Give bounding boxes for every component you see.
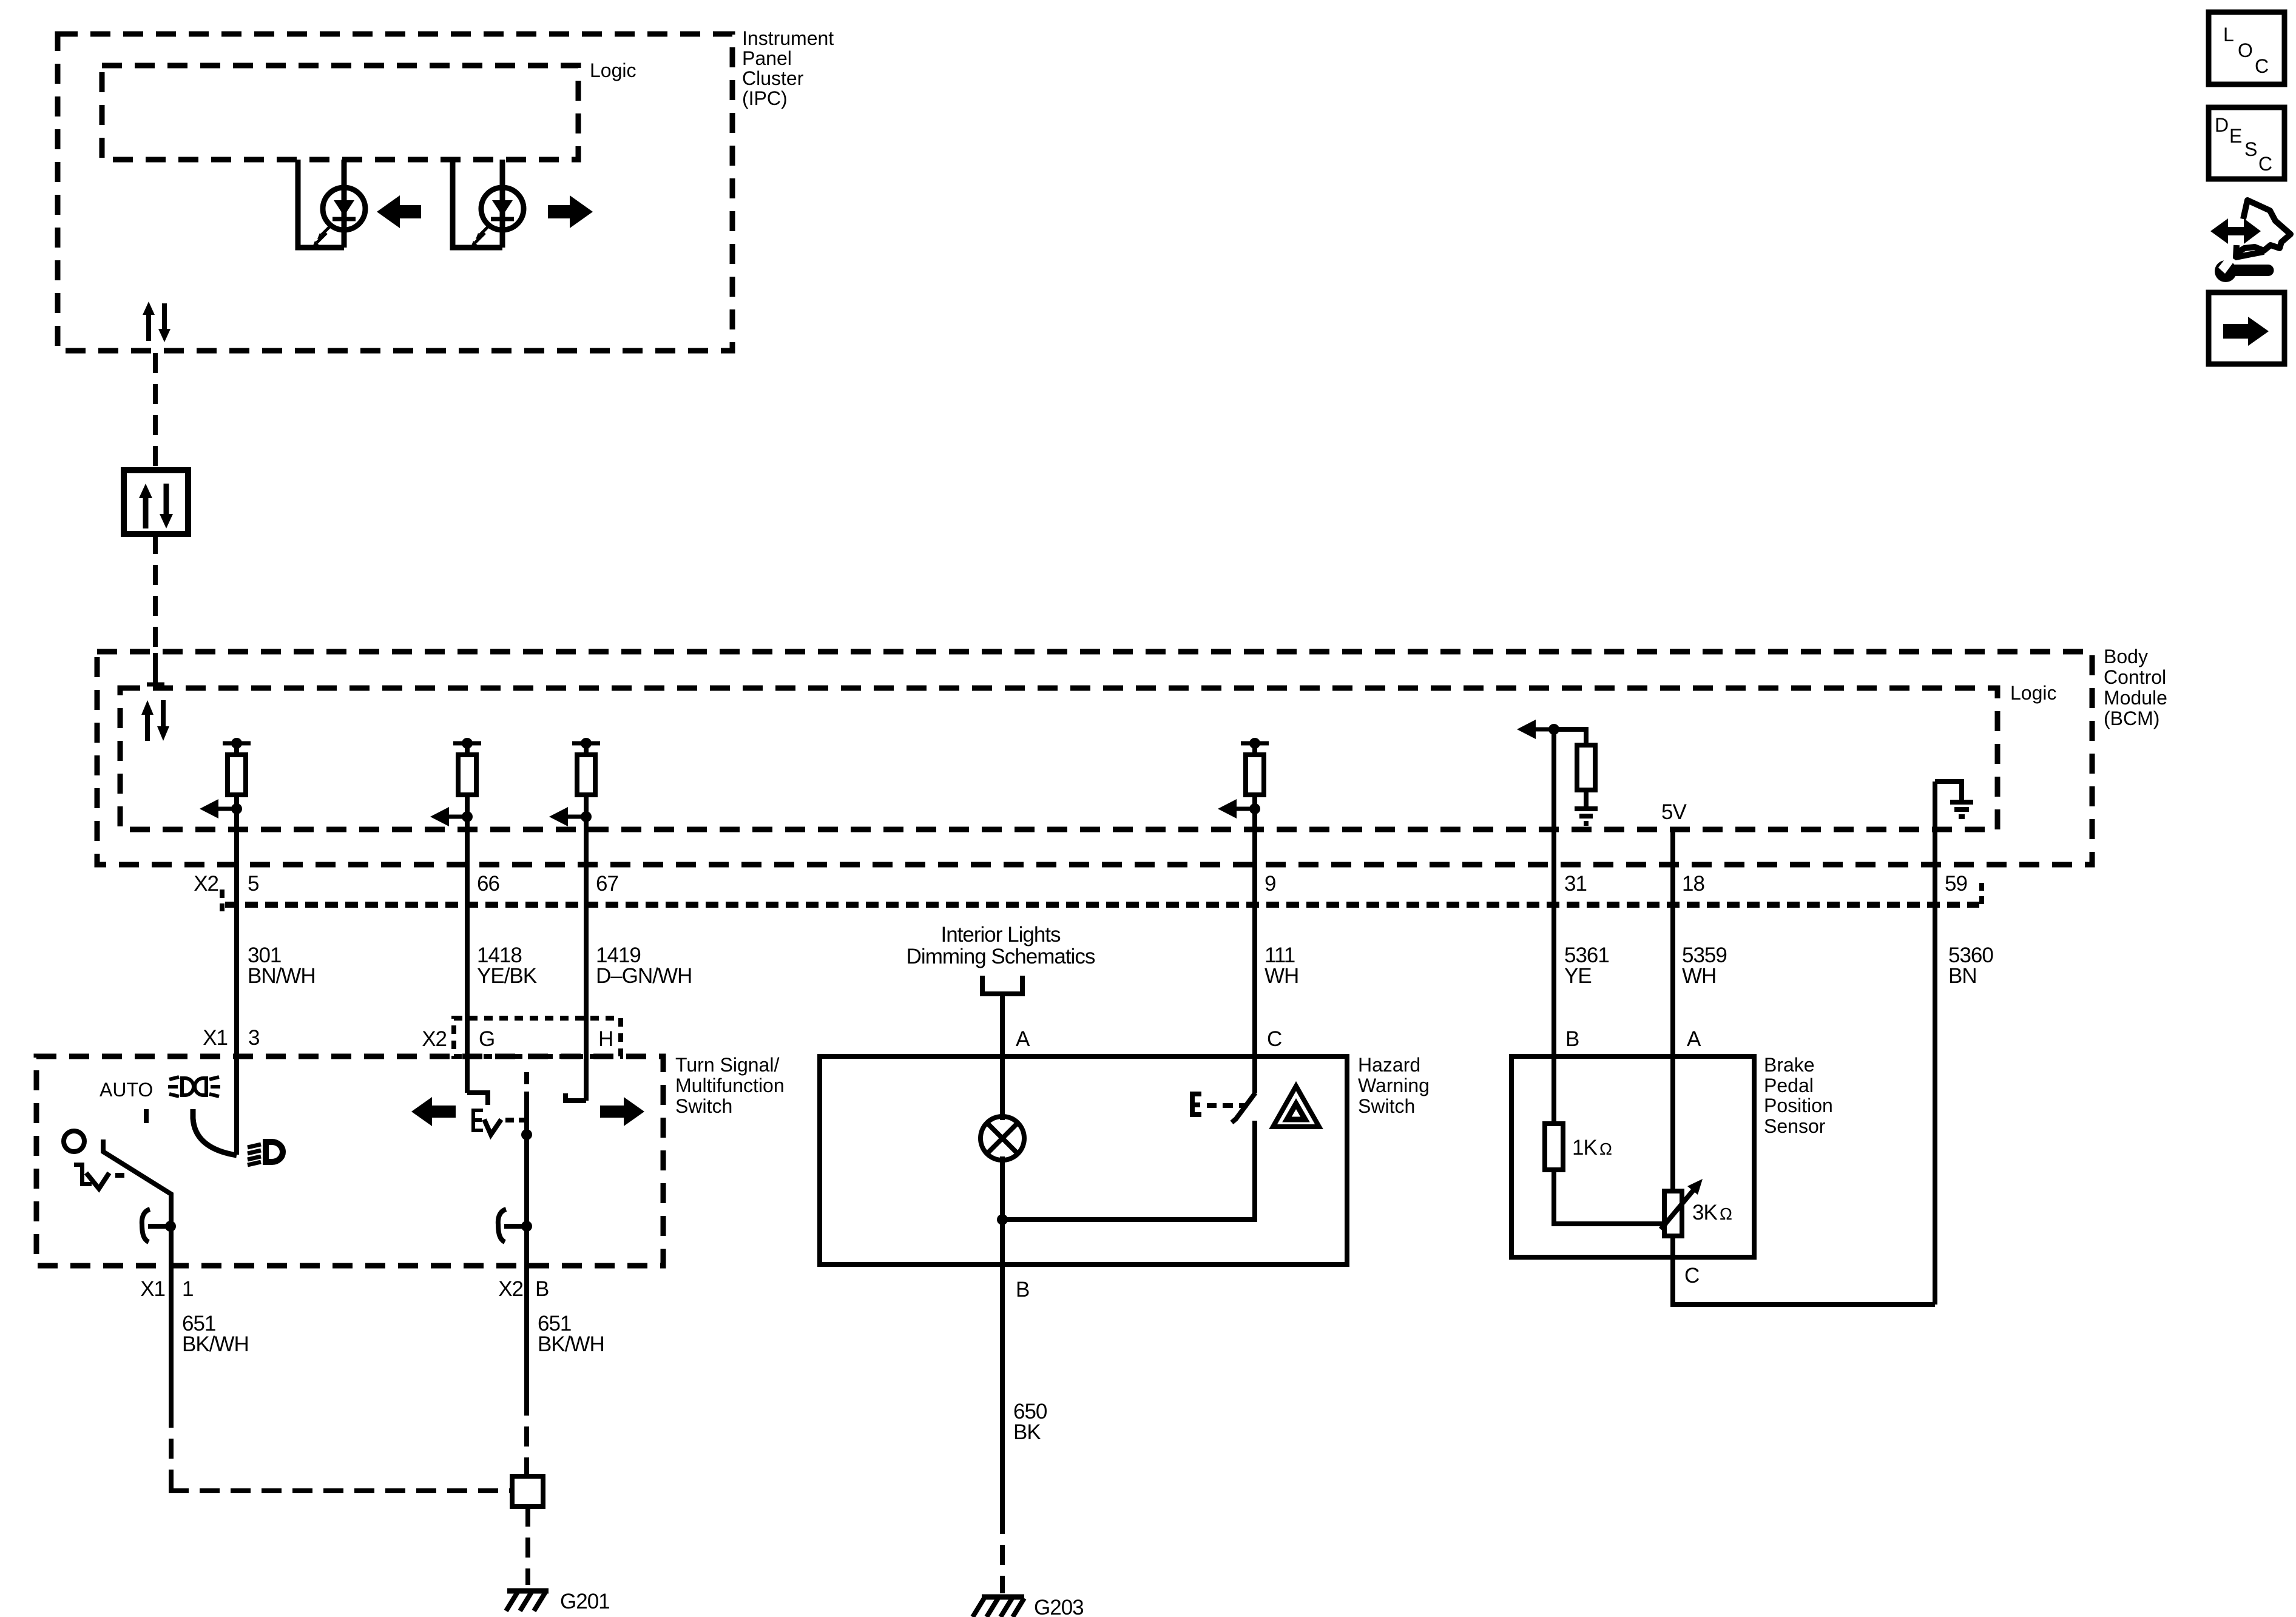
BCM Logic dashed box xyxy=(120,688,1997,829)
wire: callout stem to hazard switch pin A xyxy=(1000,994,1005,1056)
wire: left LED vertical xyxy=(342,160,347,248)
svg-text:C: C xyxy=(2258,153,2272,175)
auto headlamp icon xyxy=(182,1078,194,1095)
LED right turn indicator xyxy=(481,187,524,230)
svg-text:5V: 5V xyxy=(1661,800,1687,824)
LED left turn indicator xyxy=(323,187,365,230)
svg-text:B: B xyxy=(535,1277,549,1301)
svg-text:Control: Control xyxy=(2104,666,2166,688)
wire: circuit 111 BCM pin 9 down xyxy=(1252,809,1257,1092)
svg-text:Brake: Brake xyxy=(1764,1054,1815,1076)
node pin 66 with output arrow xyxy=(462,811,473,822)
wire: pin G hook xyxy=(467,1093,488,1105)
svg-text:Instrument: Instrument xyxy=(742,27,834,49)
svg-text:Interior Lights: Interior Lights xyxy=(940,923,1061,947)
adjust/hand-wrench icon: hand outline xyxy=(2238,200,2291,252)
right arrow legend box xyxy=(2209,292,2284,364)
svg-text:3: 3 xyxy=(248,1026,259,1050)
svg-text:Body: Body xyxy=(2104,646,2148,667)
connector X2 dashed tick xyxy=(220,890,225,911)
resistor pin 66 pull-up xyxy=(453,741,481,746)
svg-text:X2: X2 xyxy=(422,1027,447,1051)
contact terminal X2-B xyxy=(498,1209,506,1242)
svg-text:BK/WH: BK/WH xyxy=(182,1332,249,1356)
svg-text:YE/BK: YE/BK xyxy=(477,964,537,988)
svg-text:X2: X2 xyxy=(498,1277,523,1301)
svg-text:Pedal: Pedal xyxy=(1764,1075,1814,1096)
LED right light rays xyxy=(480,225,490,235)
turn signal lever dashed link xyxy=(524,1072,529,1099)
node turn signal common xyxy=(521,1129,532,1140)
gateway box up-down arrows xyxy=(143,498,149,528)
svg-text:Sensor: Sensor xyxy=(1764,1115,1826,1137)
svg-text:G203: G203 xyxy=(1034,1596,1084,1617)
wire: pin H hook xyxy=(566,1093,586,1101)
wiper arrow 3K xyxy=(1661,1189,1695,1229)
svg-text:Ω: Ω xyxy=(1720,1204,1732,1223)
wire: turn signal common xyxy=(524,1099,529,1266)
svg-text:(IPC): (IPC) xyxy=(742,87,788,109)
svg-text:G: G xyxy=(479,1027,495,1051)
wire: pin C drop xyxy=(1252,1056,1257,1093)
svg-text:A: A xyxy=(1687,1027,1701,1051)
resistor pin 67 pull-up xyxy=(572,741,600,746)
node pin 9 with output arrow xyxy=(1249,803,1260,814)
svg-text:WH: WH xyxy=(1682,964,1716,988)
wire: dashed to ground G201 xyxy=(525,1507,530,1585)
right turn direction arrow xyxy=(600,1097,644,1126)
svg-text:B: B xyxy=(1016,1278,1029,1301)
svg-text:X1: X1 xyxy=(140,1277,165,1301)
IPC Logic dashed box xyxy=(102,66,578,160)
svg-text:Dimming Schematics: Dimming Schematics xyxy=(907,945,1095,968)
svg-text:9: 9 xyxy=(1264,872,1275,896)
wire: left turn LED loop xyxy=(298,160,344,248)
callout bracket xyxy=(982,976,1022,994)
svg-text:A: A xyxy=(1016,1027,1030,1051)
svg-text:H: H xyxy=(598,1027,613,1051)
node pin 5 with output arrow xyxy=(231,803,242,814)
IPC serial data up-down arrows xyxy=(146,312,151,341)
hazard switch blade xyxy=(1232,1093,1255,1122)
DESC legend box xyxy=(2209,107,2284,179)
svg-text:C: C xyxy=(1267,1027,1281,1051)
node pin 31 input arrow xyxy=(1548,724,1559,735)
node pin 67 with output arrow xyxy=(581,811,592,822)
wire: circuit 650 pin B down xyxy=(1000,1264,1005,1514)
wiper arc to circuit 301 xyxy=(193,1109,237,1155)
svg-text:1K: 1K xyxy=(1572,1136,1597,1160)
svg-text:S: S xyxy=(2244,138,2257,160)
svg-text:X1: X1 xyxy=(203,1026,228,1050)
svg-text:Module: Module xyxy=(2104,687,2167,709)
headlamp switch pivot circle xyxy=(64,1131,84,1152)
wire: circuit 301 BCM pin 5 down xyxy=(234,809,239,1155)
dashed detent tick below AUTO xyxy=(144,1109,149,1123)
svg-text:67: 67 xyxy=(596,872,618,896)
wire: serial data stub inside BCM xyxy=(153,653,158,684)
wire: circuit 1418 BCM pin 66 down xyxy=(465,817,470,1093)
Instrument Panel Cluster (IPC) dashed box xyxy=(58,34,732,351)
wire: dashed to ground G203 xyxy=(1000,1514,1005,1593)
left turn direction arrow xyxy=(411,1097,456,1126)
Brake Pedal Position Sensor box xyxy=(1511,1056,1754,1257)
ground internal BCM pin 31 xyxy=(1575,806,1598,811)
hazard switch detent symbol xyxy=(1190,1092,1201,1117)
resistor pin 9 pull-up xyxy=(1241,741,1269,746)
wire: circuit 651 from X2-B xyxy=(524,1266,529,1396)
svg-text:Multifunction: Multifunction xyxy=(675,1075,785,1096)
svg-text:Cluster: Cluster xyxy=(742,67,804,89)
svg-text:Hazard: Hazard xyxy=(1358,1054,1420,1076)
svg-text:YE: YE xyxy=(1564,964,1592,988)
svg-text:Switch: Switch xyxy=(1358,1095,1415,1117)
svg-text:3K: 3K xyxy=(1692,1201,1717,1224)
svg-text:D: D xyxy=(2215,114,2229,136)
svg-text:BK/WH: BK/WH xyxy=(538,1332,604,1356)
svg-text:31: 31 xyxy=(1564,872,1587,896)
svg-text:Logic: Logic xyxy=(2010,682,2057,704)
wire: pin A to lamp xyxy=(1000,1056,1005,1120)
wire: dashed serial data IPC to gateway box xyxy=(153,353,158,470)
svg-text:Position: Position xyxy=(1764,1095,1833,1116)
resistor 1K xyxy=(1545,1124,1563,1170)
svg-text:L: L xyxy=(2223,24,2234,46)
contact terminal X1-1 xyxy=(142,1209,150,1242)
svg-text:B: B xyxy=(1565,1027,1579,1051)
svg-text:BN/WH: BN/WH xyxy=(248,964,316,988)
svg-text:Panel: Panel xyxy=(742,47,792,69)
LOC legend box xyxy=(2209,12,2284,84)
LED left light rays xyxy=(322,225,331,235)
wire: 1K bottom to wiper xyxy=(1554,1170,1667,1224)
wire: circuit 5361 BCM pin 31 down xyxy=(1551,729,1556,1124)
low beam headlamp icon xyxy=(266,1142,283,1162)
splice S201 box xyxy=(512,1476,543,1507)
ground G201 xyxy=(507,1588,549,1594)
svg-text:Switch: Switch xyxy=(675,1095,732,1117)
headlamp switch lever xyxy=(103,1139,171,1266)
svg-text:WH: WH xyxy=(1264,964,1298,988)
svg-text:C: C xyxy=(2255,55,2269,77)
svg-text:D–GN/WH: D–GN/WH xyxy=(596,964,692,988)
svg-text:AUTO: AUTO xyxy=(100,1079,153,1101)
svg-text:Warning: Warning xyxy=(1358,1075,1430,1096)
svg-text:BN: BN xyxy=(1948,964,1977,988)
hazard warning triangle icon xyxy=(1273,1086,1319,1127)
wire: circuit 651 from X1-1 xyxy=(169,1266,174,1408)
resistor pin 5 pull-up xyxy=(223,741,251,746)
svg-text:C: C xyxy=(1684,1264,1699,1288)
wire: lamp to pin B xyxy=(1000,1156,1005,1264)
svg-text:E: E xyxy=(2229,125,2242,147)
svg-text:66: 66 xyxy=(477,872,499,896)
svg-text:59: 59 xyxy=(1945,872,1967,896)
connector pin 59 dashed tick xyxy=(1979,883,1984,905)
connector X2 dotted line xyxy=(225,902,1979,908)
serial data gateway box xyxy=(124,470,188,534)
svg-text:O: O xyxy=(2238,39,2253,61)
resistor pin 31 pull-down xyxy=(1554,729,1586,745)
illumination lamp xyxy=(981,1116,1024,1160)
Hazard Warning Switch box xyxy=(820,1056,1347,1264)
left direction arrow xyxy=(377,195,421,228)
wire: right LED vertical xyxy=(500,160,505,248)
wire: lamp node to switch contact xyxy=(1002,1121,1255,1220)
BCM up-down arrows xyxy=(145,714,150,741)
wire: dashed serial data gateway to BCM xyxy=(153,534,158,653)
potentiometer 3K xyxy=(1664,1191,1682,1236)
wire: right turn LED loop xyxy=(453,160,502,248)
connector X2 G-H dotted box xyxy=(454,1018,621,1056)
headlamp switch detent symbol xyxy=(74,1163,92,1186)
wire: circuit 5360 BCM pin 59 down xyxy=(1933,781,1937,1305)
right direction arrow xyxy=(548,195,593,228)
svg-text:(BCM): (BCM) xyxy=(2104,707,2159,729)
svg-text:Ω: Ω xyxy=(1599,1139,1612,1158)
Body Control Module (BCM) dashed box xyxy=(97,652,2092,865)
wire: pin A through pot to pin C and back to BCM pin 59 xyxy=(1673,1236,1935,1305)
adjust/hand-wrench icon: wrench xyxy=(2215,260,2237,282)
Turn Signal/Multifunction Switch dashed box xyxy=(36,1056,663,1266)
node lamp to switch xyxy=(997,1214,1008,1225)
svg-text:1: 1 xyxy=(182,1277,193,1301)
svg-text:BK: BK xyxy=(1013,1420,1041,1444)
adjust/hand-wrench icon: double arrow xyxy=(2210,218,2261,244)
ground internal BCM pin 59 xyxy=(1935,781,1962,800)
svg-text:X2: X2 xyxy=(194,872,218,896)
svg-text:5: 5 xyxy=(248,872,258,896)
svg-text:Logic: Logic xyxy=(590,59,636,81)
wire: circuit 1419 BCM pin 67 down xyxy=(584,817,589,1101)
svg-text:Turn Signal/: Turn Signal/ xyxy=(675,1054,779,1076)
svg-text:18: 18 xyxy=(1682,872,1704,896)
svg-text:G201: G201 xyxy=(560,1590,610,1613)
ground G203 xyxy=(982,1595,1024,1600)
wire: circuit 5359 BCM pin 18 down xyxy=(1670,829,1675,1191)
turn signal detent symbol xyxy=(471,1109,483,1132)
